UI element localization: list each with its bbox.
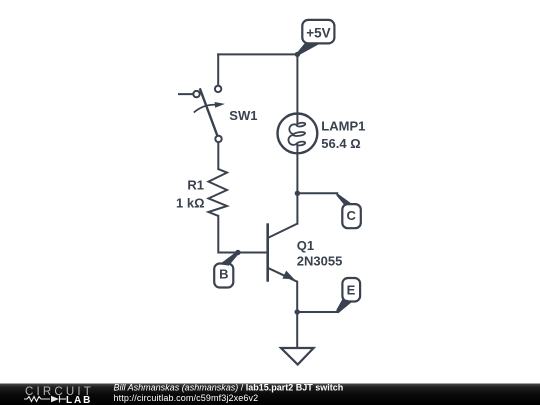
wire resistor bottom to base <box>218 216 267 253</box>
node junction emitter <box>295 309 300 314</box>
wire switch bottom to resistor <box>217 142 219 169</box>
transistor Q1 <box>268 223 298 281</box>
svg-text:E: E <box>347 283 356 298</box>
svg-text:LAB: LAB <box>66 395 92 405</box>
wire switch left stub <box>179 93 193 95</box>
svg-text:56.4 Ω: 56.4 Ω <box>321 136 360 151</box>
svg-text:LAMP1: LAMP1 <box>321 119 365 134</box>
wire switch top lead <box>217 54 219 85</box>
lamp LAMP1 <box>278 113 318 153</box>
CircuitLab logo <box>24 386 94 405</box>
svg-text:Q1: Q1 <box>297 238 314 253</box>
svg-text:2N3055: 2N3055 <box>297 253 343 268</box>
node C label <box>336 193 360 229</box>
switch SW1 <box>193 86 225 142</box>
svg-text:+5V: +5V <box>306 26 330 41</box>
wire junction to C label <box>297 192 337 194</box>
wire +5V stem to lamp <box>296 54 298 113</box>
node junction collector <box>295 191 300 196</box>
wire emitter to ground <box>296 312 298 348</box>
node junction top <box>295 52 300 57</box>
svg-text:http://circuitlab.com/c59mf3j2: http://circuitlab.com/c59mf3j2xe6v2 <box>114 393 259 403</box>
wire collector stem <box>296 193 298 223</box>
wire top rail <box>218 53 297 55</box>
ground <box>281 348 314 365</box>
svg-text:Bill Ashmanskas (ashmanskas) /: Bill Ashmanskas (ashmanskas) / lab15.par… <box>114 382 344 392</box>
svg-text:1 kΩ: 1 kΩ <box>176 195 205 210</box>
wire emitter stem <box>296 282 298 312</box>
svg-text:R1: R1 <box>187 178 204 193</box>
node junction base <box>235 250 240 255</box>
node B label <box>214 251 239 287</box>
wire junction to E label <box>297 311 337 313</box>
wire lamp bottom to node C junction <box>296 153 298 193</box>
svg-text:SW1: SW1 <box>229 108 257 123</box>
node +5V label <box>296 20 334 56</box>
svg-text:B: B <box>219 267 228 282</box>
svg-text:C: C <box>347 208 357 223</box>
node E label <box>336 278 360 313</box>
resistor R1 <box>209 169 228 216</box>
